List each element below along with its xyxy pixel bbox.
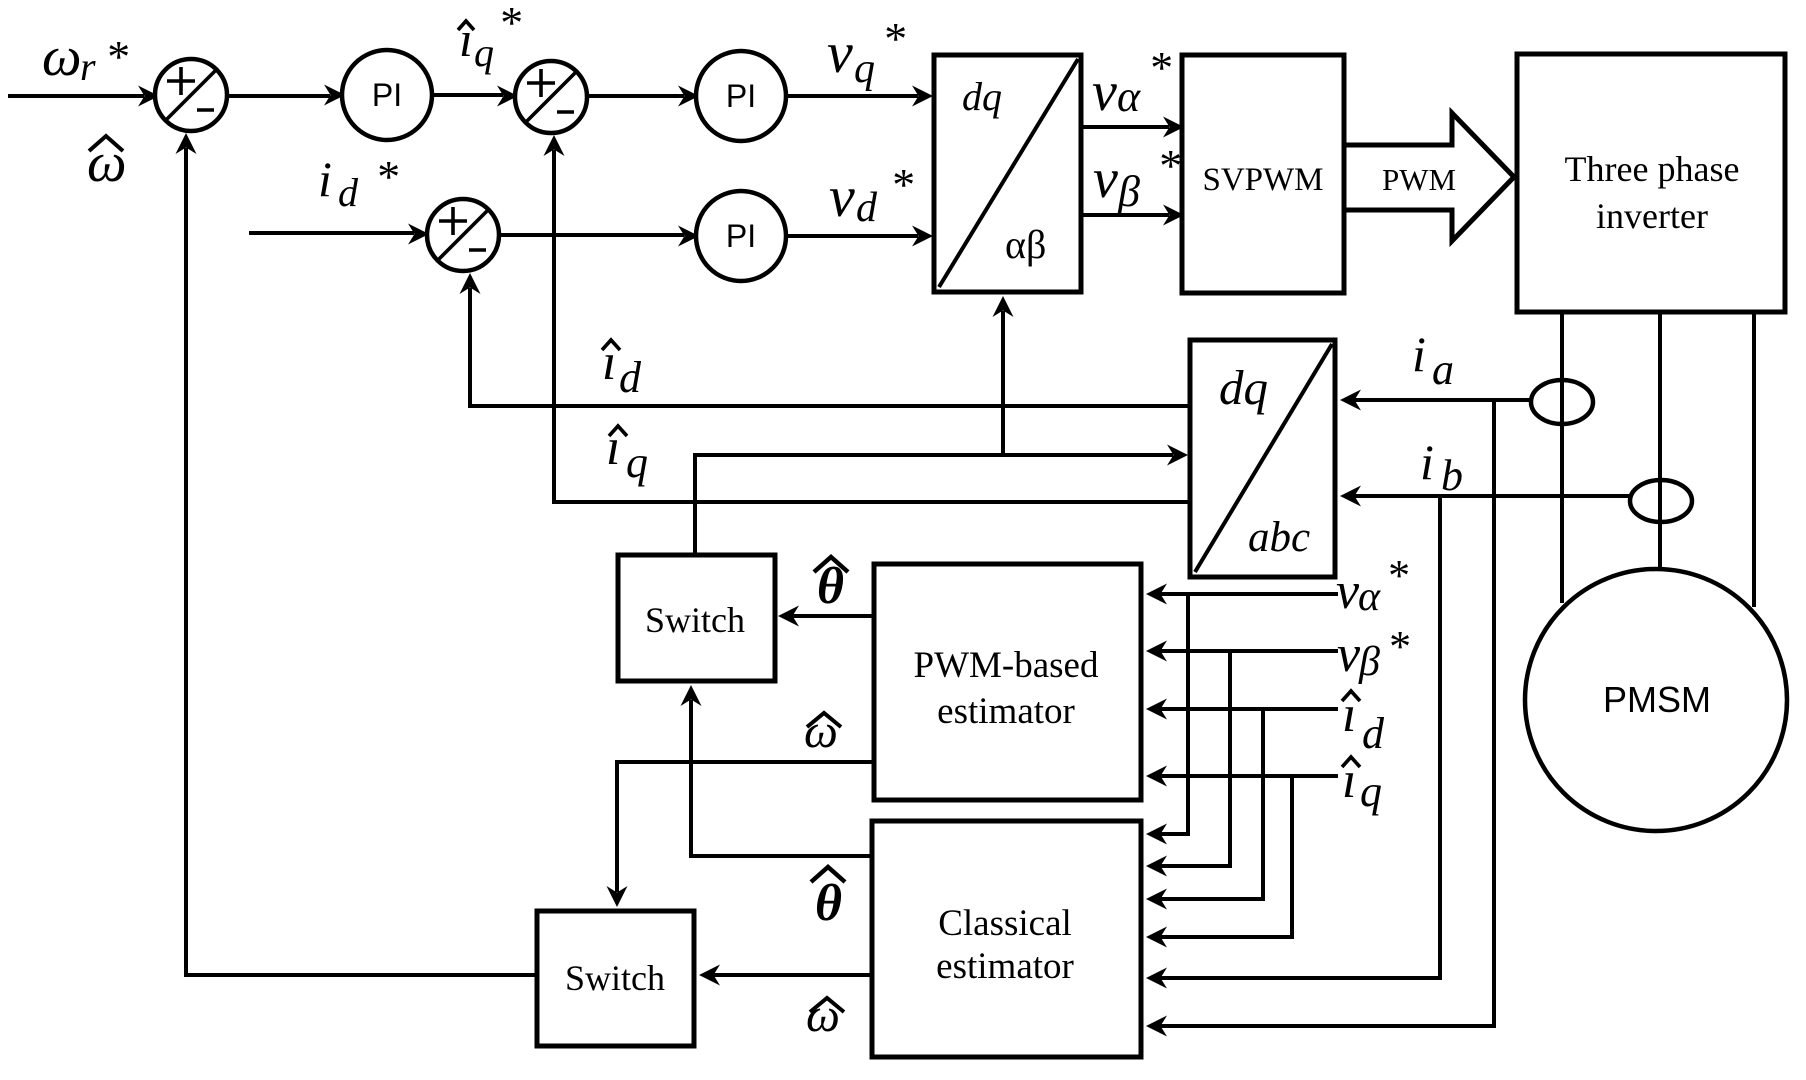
svg-text:PI: PI <box>372 77 402 113</box>
svg-text:inverter: inverter <box>1596 196 1708 236</box>
svg-text:SVPWM: SVPWM <box>1202 162 1323 198</box>
svg-text:*: * <box>375 151 398 202</box>
svg-text:v: v <box>827 20 853 85</box>
svg-text:θ: θ <box>815 875 842 932</box>
svg-text:i: i <box>1412 326 1426 382</box>
svg-text:estimator: estimator <box>936 946 1074 987</box>
svg-text:α: α <box>1117 72 1141 121</box>
svg-text:q: q <box>854 46 875 92</box>
svg-text:q: q <box>474 30 494 75</box>
svg-text:PWM-based: PWM-based <box>914 645 1099 686</box>
svg-text:PWM: PWM <box>1382 162 1456 197</box>
svg-text:αβ: αβ <box>1005 222 1046 267</box>
svg-text:PI: PI <box>726 218 756 254</box>
svg-text:abc: abc <box>1248 514 1310 561</box>
svg-text:i: i <box>1420 434 1434 490</box>
svg-text:*: * <box>1157 140 1180 191</box>
svg-text:v: v <box>1336 563 1360 620</box>
svg-text:Switch: Switch <box>565 958 665 998</box>
svg-text:q: q <box>1360 767 1382 816</box>
svg-text:d: d <box>338 170 359 215</box>
svg-text:q: q <box>626 438 648 487</box>
svg-text:Classical: Classical <box>938 903 1072 944</box>
svg-text:d: d <box>619 353 642 402</box>
svg-text:ω: ω <box>806 989 840 1042</box>
svg-text:Switch: Switch <box>645 600 745 640</box>
svg-text:v: v <box>1092 61 1117 123</box>
svg-text:β: β <box>1117 167 1140 216</box>
svg-text:*: * <box>1387 622 1409 671</box>
svg-text:r: r <box>80 44 96 89</box>
svg-text:v: v <box>1337 626 1361 683</box>
svg-text:v: v <box>829 164 855 229</box>
svg-text:PI: PI <box>726 78 756 114</box>
svg-text:d: d <box>1362 709 1385 758</box>
svg-text:dq: dq <box>1219 360 1268 415</box>
svg-text:β: β <box>1358 639 1380 685</box>
svg-text:*: * <box>1148 42 1171 93</box>
svg-text:α: α <box>1358 574 1381 620</box>
svg-text:dq: dq <box>962 74 1002 119</box>
svg-text:*: * <box>1386 551 1408 600</box>
svg-text:d: d <box>856 185 878 231</box>
svg-text:v: v <box>1093 148 1118 210</box>
svg-text:b: b <box>1441 451 1463 500</box>
svg-text:*: * <box>105 31 128 82</box>
svg-text:i: i <box>318 151 332 207</box>
svg-text:ω: ω <box>87 132 127 194</box>
svg-text:PMSM: PMSM <box>1603 679 1711 720</box>
svg-text:*: * <box>498 0 521 48</box>
svg-text:*: * <box>890 159 913 210</box>
svg-text:Three phase: Three phase <box>1565 149 1740 189</box>
svg-text:a: a <box>1432 345 1454 394</box>
svg-text:*: * <box>882 13 905 64</box>
svg-text:estimator: estimator <box>937 691 1075 732</box>
svg-text:ω: ω <box>42 26 82 88</box>
